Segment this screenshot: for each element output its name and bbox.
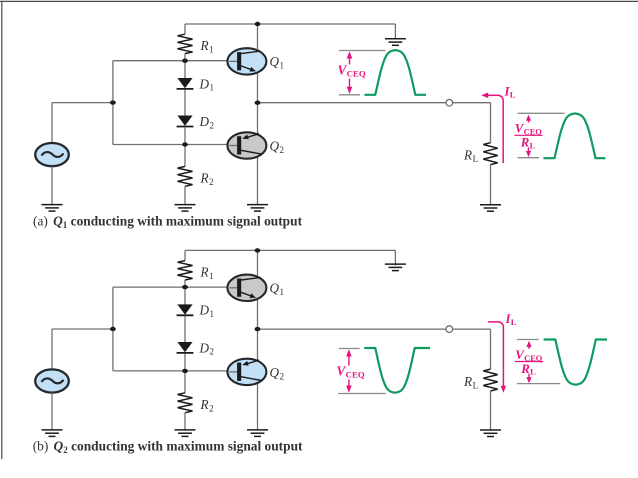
wire drop to top-right ground (a) (394, 24, 396, 39)
VCEQ/RL top line (b) (517, 339, 539, 341)
junction dot D2/R2 (b) (182, 369, 188, 373)
ground top right (a) (385, 39, 406, 46)
VCEQ top reference line (b) (339, 348, 360, 350)
wire Q2 collector (b) (257, 384, 259, 430)
wire Q2 collector (a) (257, 157, 259, 204)
waveform VCEQ half-sine (a) (364, 50, 426, 95)
wire input vertical (b) (112, 287, 114, 371)
wire source to junction (b) (52, 328, 113, 330)
ground under source (a) (42, 205, 63, 212)
ground under RL (a) (480, 205, 501, 212)
wire D1 to D2 (a) (184, 90, 186, 116)
resistor RL (b) (483, 369, 497, 391)
VCEQ/RL bottom line (b) (517, 383, 561, 385)
VCEQ bottom reference line (b) (338, 393, 386, 395)
junction dot R1/D1 (b) (182, 285, 188, 289)
resistor R2 (a) (178, 166, 193, 186)
wire D2 to node (b) (184, 354, 186, 393)
wire upper base line (b) (113, 286, 228, 288)
ground top right (b) (385, 264, 406, 271)
wire RL bottom lead (a) (490, 165, 492, 205)
transistor Q2 (a) (227, 132, 266, 158)
ground under R2 (b) (175, 430, 196, 437)
ground under source (b) (42, 430, 63, 437)
resistor R2 (b) (178, 393, 193, 413)
VCEQ/RL up arrow (b) (526, 341, 531, 349)
svg-text:(b)Q2conducting with maximum s: (b)Q2conducting with maximum signal outp… (33, 439, 303, 455)
ground under Q2 (a) (247, 205, 268, 212)
wire Q1 collector (b) (257, 250, 259, 275)
VCEQ/RL top line (a) (518, 112, 565, 114)
resistor R1 (a) (178, 34, 193, 53)
wire source top lead (a) (51, 103, 53, 144)
node open circle (a) (446, 99, 453, 106)
wire R1 bottom lead (a) (184, 54, 186, 79)
fraction bar (b) (515, 361, 543, 363)
wire input vertical (a) (112, 61, 114, 145)
junction dot rail (a) (255, 22, 261, 26)
VCEQ dimension arrow (a) (347, 51, 353, 94)
fraction bar (a) (514, 134, 542, 136)
wire lower base line (b) (113, 370, 228, 372)
page border left (1, 1, 3, 459)
wire top supply rail (b) (185, 249, 395, 251)
wire output right (b) (453, 328, 491, 330)
wire RL top lead (a) (490, 103, 492, 143)
IL arrow (b) (488, 322, 506, 393)
diode D1 (a) (177, 78, 194, 89)
source Vs (a) (35, 143, 69, 166)
ground under RL (b) (480, 430, 501, 437)
wire D1 to D2 (b) (184, 316, 186, 342)
IL arrow (a) (481, 93, 503, 164)
VCEQ/RL down arrow (b) (526, 374, 531, 384)
resistor RL (a) (483, 143, 497, 165)
ground under R2 (a) (175, 205, 196, 212)
waveform load inverted half-sine (b) (544, 340, 607, 385)
wire RL bottom lead (b) (490, 391, 492, 430)
VCEQ/RL up arrow (a) (526, 115, 531, 123)
junction dot rail (b) (255, 248, 261, 252)
wire source bottom lead (a) (51, 166, 53, 204)
source Vs (b) (35, 369, 69, 392)
node open circle (b) (446, 326, 453, 333)
VCEQ/RL down arrow (a) (526, 148, 531, 158)
wire RL top lead (b) (490, 329, 492, 369)
VCEQ top reference line (a) (339, 50, 386, 52)
junction dot input (a) (110, 100, 116, 104)
diode D1 (b) (177, 305, 194, 316)
wire Q1 emitter (b) (257, 300, 259, 329)
wire R1 top lead (b) (184, 250, 186, 260)
wire Q2 emitter (a) (257, 103, 259, 134)
diode D2 (a) (177, 116, 194, 127)
wire D2 to node (a) (184, 127, 186, 166)
wire R2 bottom lead (b) (184, 413, 186, 430)
VCEQ bottom reference line (a) (339, 94, 360, 96)
VCEQ dimension arrow (b) (346, 349, 352, 392)
wire output left (a) (258, 102, 447, 104)
wire top supply rail (a) (185, 23, 395, 25)
wire R1 bottom lead (b) (184, 280, 186, 305)
page border top (0, 0, 638, 2)
wire source to junction (a) (52, 102, 113, 104)
wire source bottom lead (b) (51, 393, 53, 430)
waveform load half-sine (a) (543, 114, 605, 159)
wire upper base line (a) (113, 60, 228, 62)
wire lower base line (a) (113, 144, 228, 146)
wire Q1 emitter (a) (257, 74, 259, 103)
junction dot input (b) (110, 327, 116, 331)
VCEQ/RL bottom line (a) (518, 157, 539, 159)
wire R2 bottom lead (a) (184, 186, 186, 204)
diode D2 (b) (177, 342, 194, 353)
junction dot R1/D1 (a) (182, 59, 188, 63)
wire source top lead (b) (51, 329, 53, 370)
junction dot D2/R2 (a) (182, 142, 188, 146)
resistor R1 (b) (178, 261, 193, 280)
svg-text:(a)Q1conducting with maximum s: (a)Q1conducting with maximum signal outp… (33, 213, 303, 229)
transistor Q1 (b) (227, 275, 266, 301)
waveform VCEQ inverted half-sine (b) (364, 348, 430, 393)
transistor Q1 (a) (227, 48, 266, 74)
wire Q2 emitter (b) (257, 329, 259, 360)
junction dot output (b) (255, 327, 261, 331)
ground under Q2 (b) (247, 430, 268, 437)
wire drop to top-right ground (b) (394, 250, 396, 265)
wire R1 top lead (a) (184, 24, 186, 34)
wire output right (a) (453, 102, 491, 104)
junction dot output (a) (255, 101, 261, 105)
wire output left (b) (258, 328, 447, 330)
transistor Q2 (b) (227, 359, 266, 385)
wire Q1 collector (a) (257, 24, 259, 49)
